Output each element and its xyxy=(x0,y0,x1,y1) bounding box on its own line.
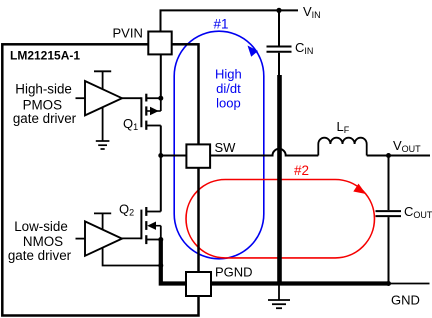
U2 supply T-bar xyxy=(94,213,111,230)
U2 input stub xyxy=(76,238,86,240)
loop #2 arrowhead xyxy=(353,184,366,194)
node U2 ground junction dot xyxy=(158,263,163,268)
capacitor COUT xyxy=(376,211,402,216)
Q2 channel segments xyxy=(145,207,147,216)
svg-text:di/dt: di/dt xyxy=(216,81,241,96)
svg-text:LF: LF xyxy=(337,119,350,135)
svg-text:VIN: VIN xyxy=(303,4,321,20)
node Q2 source dot xyxy=(158,237,163,242)
wire COUT bottom lead xyxy=(388,217,390,283)
svg-text:PVIN: PVIN xyxy=(113,26,143,41)
Q1 gate bar xyxy=(140,97,142,127)
ground (main power ground symbol) xyxy=(268,285,290,308)
wire GND stub to right edge xyxy=(389,283,430,285)
wire CIN bottom lead xyxy=(278,53,280,76)
svg-text:LM21215A-1: LM21215A-1 xyxy=(10,49,80,63)
svg-text:VOUT: VOUT xyxy=(393,138,421,154)
svg-text:GND: GND xyxy=(391,292,420,307)
wire SW pin to inductor (with hop over return wire) xyxy=(210,149,318,156)
svg-text:PMOS: PMOS xyxy=(23,97,63,112)
Q2 body lead with arrow xyxy=(152,225,161,227)
svg-text:Low-side: Low-side xyxy=(14,219,68,234)
svg-text:High-side: High-side xyxy=(15,82,72,97)
pin PVIN box xyxy=(148,32,171,55)
wire VIN rail (PVIN top to VIN label) xyxy=(161,10,299,31)
current loop #1 (high di/dt loop, blue stadium) xyxy=(174,31,264,259)
wire Q1 drain to Q2 drain (switch node vertical) xyxy=(160,126,162,212)
U1 supply T-bar xyxy=(94,71,111,89)
svg-text:NMOS: NMOS xyxy=(23,234,63,249)
Q1 drain lead (bottom) xyxy=(146,125,161,127)
svg-text:#1: #1 xyxy=(214,17,229,32)
gate driver U1 (high-side) triangle xyxy=(85,81,122,115)
ground (U1 driver ground symbol) xyxy=(96,107,110,149)
wire thick Q2 source to PGND pin and ground plane xyxy=(161,240,389,284)
svg-text:PGND: PGND xyxy=(215,265,253,280)
svg-text:gate driver: gate driver xyxy=(8,248,72,263)
gate driver U2 (low-side) triangle xyxy=(85,221,122,255)
transistor Q1 (high-side PMOS) xyxy=(122,94,161,130)
Q1 gate lead xyxy=(122,97,141,99)
current loop #2 (output loop, red stadium) xyxy=(186,180,374,258)
Q2 drain lead (top) xyxy=(146,211,161,213)
Q2 source lead (bottom) xyxy=(146,239,161,241)
wire U2 ground return to PGND node xyxy=(103,248,161,266)
node VIN junction dot xyxy=(276,8,281,13)
inductor LF xyxy=(318,138,366,156)
pin PGND box xyxy=(186,272,211,296)
svg-text:Q1: Q1 xyxy=(123,116,138,132)
wire thick input return (CIN to ground plane) xyxy=(277,75,282,285)
loop #1 arrowhead xyxy=(248,46,259,57)
node Q1 source dot xyxy=(158,96,163,101)
Q1 channel segments xyxy=(145,94,147,102)
node ground junction dot xyxy=(386,281,391,286)
svg-text:gate driver: gate driver xyxy=(13,111,77,126)
U1 input stub xyxy=(76,97,86,99)
svg-text:SW: SW xyxy=(215,140,237,155)
svg-text:#2: #2 xyxy=(294,163,309,178)
pin SW box xyxy=(186,144,210,167)
Q2 gate bar xyxy=(140,210,142,240)
svg-text:loop: loop xyxy=(216,95,241,110)
svg-text:COUT: COUT xyxy=(404,204,432,220)
svg-text:High: High xyxy=(215,67,242,82)
svg-text:Q2: Q2 xyxy=(119,202,134,218)
capacitor CIN xyxy=(267,47,292,52)
Q1 source lead (top) xyxy=(146,97,161,99)
node SW junction dot xyxy=(158,153,163,158)
wire CIN top lead xyxy=(278,10,280,45)
transistor Q2 (low-side NMOS) xyxy=(122,207,161,244)
wire COUT top lead xyxy=(388,156,390,211)
node VOUT junction dot xyxy=(386,153,391,158)
Q2 gate lead xyxy=(122,237,141,239)
IC outline LM21215A-1 xyxy=(2,44,198,315)
wire inductor to VOUT xyxy=(367,155,430,157)
wire SW node to SW pin xyxy=(161,155,187,157)
Q1 body lead with arrow xyxy=(146,110,161,112)
svg-text:CIN: CIN xyxy=(295,40,313,56)
wire PVIN to Q1 source xyxy=(160,54,162,98)
